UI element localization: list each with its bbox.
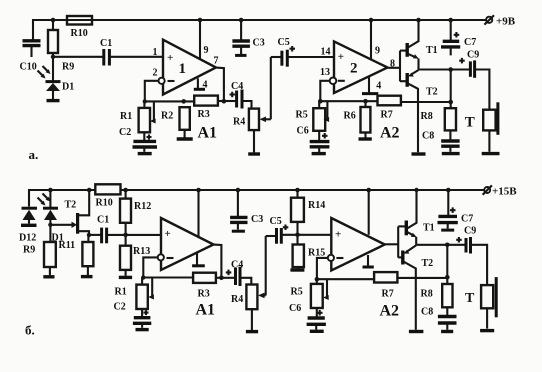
svg-text:C8: C8	[421, 307, 433, 318]
ground speaker	[482, 152, 500, 155]
svg-text:R8: R8	[421, 289, 433, 300]
power wire A1 bottom	[196, 188, 201, 237]
svg-text:+15В: +15В	[492, 186, 517, 198]
svg-text:C5: C5	[270, 216, 282, 227]
svg-text:C6: C6	[297, 126, 309, 137]
svg-text:9: 9	[375, 45, 380, 56]
op-amp A2 bottom	[331, 218, 385, 271]
svg-text:+: +	[335, 228, 341, 240]
capacitor C9	[459, 50, 489, 110]
svg-text:+: +	[167, 52, 173, 64]
JFET T2	[65, 188, 92, 235]
potentiometer R4	[233, 57, 271, 152]
pin 9 wire A2	[369, 18, 380, 60]
svg-text:R13: R13	[133, 246, 150, 257]
ground T2	[412, 152, 426, 155]
resistor R6	[344, 101, 371, 137]
wire top supply rail	[33, 20, 486, 40]
resistor R9 bottom	[23, 223, 56, 276]
svg-text:7: 7	[214, 56, 219, 67]
wire apex to bases bottom	[385, 226, 398, 257]
ground R15	[290, 268, 304, 271]
svg-text:C9: C9	[467, 50, 479, 61]
svg-text:R3: R3	[198, 109, 210, 120]
speaker T	[465, 102, 498, 152]
capacitor C6 bottom	[289, 303, 326, 330]
ground R4	[248, 152, 260, 155]
ground T2 bottom	[409, 330, 424, 333]
pin 7 label	[214, 56, 219, 67]
ground speaker bottom	[480, 329, 494, 332]
svg-text:R12: R12	[134, 201, 151, 212]
svg-text:4: 4	[376, 81, 381, 92]
pin 13 circle	[330, 78, 337, 85]
svg-text:T2: T2	[65, 200, 77, 211]
svg-text:A1: A1	[196, 302, 216, 319]
pin 1 label	[153, 47, 158, 58]
label a.	[29, 147, 39, 162]
svg-text:C8: C8	[422, 131, 434, 142]
svg-text:+: +	[338, 51, 344, 63]
resistor R3	[194, 96, 224, 120]
capacitor C6	[297, 126, 330, 153]
transistor T1	[400, 18, 438, 70]
svg-text:R5: R5	[291, 287, 303, 298]
pin circle A2 bottom	[328, 255, 334, 261]
wire A2 bottom feedback	[315, 258, 375, 282]
svg-text:T1: T1	[426, 45, 438, 56]
capacitor C4 bottom	[221, 260, 243, 286]
svg-text:R9: R9	[62, 62, 74, 73]
svg-text:C4: C4	[231, 260, 243, 271]
svg-text:C3: C3	[253, 38, 265, 49]
potentiometer R4 bottom	[231, 236, 266, 330]
potentiometer R1 bottom	[115, 278, 154, 310]
potentiometer R5	[296, 101, 330, 131]
svg-text:R2: R2	[161, 111, 173, 122]
ground C2	[138, 152, 152, 155]
op-amp A1	[163, 40, 216, 95]
resistor R14	[291, 188, 325, 237]
capacitor C2	[119, 127, 157, 152]
svg-text:T2: T2	[426, 87, 438, 98]
resistor R13	[120, 235, 150, 276]
svg-text:C2: C2	[119, 127, 131, 138]
ground C8	[442, 152, 460, 155]
svg-text:C9: C9	[464, 226, 476, 237]
wire A1 bottom output	[214, 245, 224, 281]
capacitor C1 bottom	[97, 215, 109, 244]
svg-text:C7: C7	[461, 214, 473, 225]
light arrows D1 bottom	[38, 194, 51, 206]
transistor T1 bottom	[398, 188, 434, 245]
pin circle A1 bottom	[158, 254, 164, 260]
svg-text:R4: R4	[233, 117, 245, 128]
label A2 bottom	[380, 303, 400, 320]
resistor R10	[67, 16, 92, 39]
pin 4 stub A2 bottom	[363, 255, 374, 267]
capacitor C2 bottom	[114, 302, 152, 328]
capacitor C1	[100, 38, 112, 66]
capacitor C4	[224, 81, 243, 109]
svg-text:R6: R6	[344, 111, 356, 122]
svg-text:4: 4	[203, 80, 208, 91]
node R9 top	[51, 18, 56, 23]
svg-text:R7: R7	[381, 110, 393, 121]
terminal +15V	[483, 185, 518, 197]
svg-text:R15: R15	[308, 247, 325, 258]
ground C6	[312, 152, 326, 155]
pin 9 wire	[198, 18, 209, 60]
op-amp A2	[334, 41, 388, 93]
svg-text:R5: R5	[296, 110, 308, 121]
svg-text:б.: б.	[25, 322, 35, 337]
resistor R7 bottom	[374, 272, 397, 299]
resistor R8 bottom	[421, 284, 453, 316]
capacitor C3	[232, 18, 264, 56]
ground R4 bottom	[246, 330, 258, 333]
svg-text:14: 14	[321, 47, 331, 58]
wire bottom supply rail	[29, 190, 484, 207]
resistor R7	[378, 96, 401, 121]
label A1 bottom	[196, 302, 216, 319]
pin 4 stub A1 bottom	[192, 253, 205, 266]
svg-text:R10: R10	[71, 28, 88, 39]
wire A2 feedback	[318, 81, 378, 104]
svg-text:D1: D1	[62, 82, 74, 93]
wire emitters node	[419, 67, 471, 72]
capacitor C5	[271, 37, 334, 67]
svg-text:T2: T2	[422, 258, 434, 269]
svg-text:C10: C10	[20, 62, 37, 73]
label A1	[198, 125, 218, 142]
svg-text:R9: R9	[23, 245, 35, 256]
label A2	[380, 125, 400, 142]
ground D12	[21, 224, 37, 227]
svg-text:R11: R11	[59, 240, 76, 251]
transistor T2 bottom	[398, 245, 433, 329]
wire emitters node bottom	[416, 243, 466, 248]
wire D1 to gate	[50, 222, 77, 228]
svg-text:T1: T1	[423, 222, 435, 233]
capacitor C10	[20, 41, 41, 73]
svg-text:C1: C1	[97, 215, 109, 226]
svg-text:2: 2	[350, 61, 358, 77]
resistor R11	[59, 233, 94, 275]
svg-text:C3: C3	[251, 214, 263, 225]
svg-text:C5: C5	[278, 37, 290, 48]
wire A1 feedback	[143, 81, 195, 104]
wire input node	[51, 55, 104, 59]
photodiode D1 bottom	[43, 188, 64, 244]
capacitor C7	[441, 18, 476, 56]
svg-text:A1: A1	[198, 125, 218, 142]
pin 4 stub A2	[362, 76, 381, 93]
svg-text:C4: C4	[231, 81, 243, 92]
wire C1 to A1 input	[107, 233, 161, 238]
resistor R8	[421, 108, 457, 140]
ground C6 bottom	[310, 330, 324, 333]
resistor R12	[120, 188, 151, 235]
capacitor C5 bottom	[266, 216, 332, 244]
svg-text:C6: C6	[289, 303, 301, 314]
wire output to R8	[401, 70, 453, 109]
ground R6	[359, 137, 372, 140]
svg-text:+9В: +9В	[496, 16, 516, 28]
terminal +9V	[484, 15, 515, 27]
photodiode D12	[19, 208, 37, 243]
power wire A2 bottom	[366, 188, 371, 235]
svg-text:+: +	[165, 228, 171, 240]
capacitor C3 bottom	[230, 188, 263, 232]
pin 4 stub	[194, 78, 208, 90]
svg-text:R8: R8	[421, 111, 433, 122]
svg-text:C2: C2	[114, 302, 126, 313]
svg-text:2: 2	[153, 68, 158, 79]
svg-text:R7: R7	[382, 288, 394, 299]
ground R13	[119, 276, 132, 279]
wire source node to C1	[89, 234, 101, 236]
light arrows D1	[38, 66, 51, 79]
svg-text:C7: C7	[464, 37, 476, 48]
svg-text:R3: R3	[198, 288, 210, 299]
ground R11	[81, 275, 93, 278]
wire output to R8 bottom	[445, 245, 450, 284]
svg-text:R1: R1	[115, 287, 127, 298]
resistor R2	[161, 107, 190, 138]
svg-text:a.: a.	[29, 147, 39, 162]
resistor R3 bottom	[193, 273, 221, 300]
resistor R9	[48, 20, 74, 73]
potentiometer R5 bottom	[291, 279, 329, 308]
ground R9 bottom	[43, 275, 54, 278]
ground R2	[177, 137, 193, 140]
ground C2 bottom	[136, 328, 149, 331]
pin 14 label	[321, 47, 331, 58]
label b.	[25, 322, 35, 337]
svg-text:T: T	[465, 114, 475, 130]
resistor R15	[293, 235, 326, 269]
capacitor C9 bottom	[456, 226, 487, 286]
wire C4 to R4	[242, 101, 252, 109]
svg-text:R4: R4	[231, 294, 243, 305]
svg-text:C1: C1	[100, 38, 112, 49]
svg-text:A2: A2	[380, 125, 400, 142]
svg-text:R14: R14	[308, 200, 325, 211]
svg-text:9: 9	[204, 45, 209, 56]
resistor R10 bottom	[95, 184, 120, 208]
pin 8 label	[390, 59, 395, 70]
wire pin8 to bases	[388, 51, 401, 82]
transistor T2	[400, 70, 438, 152]
resistor R1	[120, 101, 156, 132]
capacitor C7 bottom	[438, 188, 474, 230]
svg-text:A2: A2	[380, 303, 400, 320]
svg-text:R10: R10	[96, 198, 113, 209]
svg-text:1: 1	[179, 61, 187, 77]
pin 2 circle	[159, 78, 165, 84]
wire A1 output	[216, 68, 226, 104]
wire R7 to output junction	[397, 277, 447, 279]
ground D1	[47, 99, 60, 102]
speaker T bottom	[465, 277, 496, 329]
svg-text:13: 13	[320, 67, 330, 78]
wire C4 to R4 bottom	[240, 278, 251, 285]
op-amp A1 bottom	[161, 218, 214, 270]
photodiode D1	[46, 57, 75, 99]
wire C1 to A1	[109, 56, 163, 58]
ground C8 bottom	[441, 330, 453, 333]
svg-text:R1: R1	[120, 111, 132, 122]
capacitor C8	[422, 131, 460, 152]
svg-text:D12: D12	[19, 233, 36, 244]
capacitor C8 bottom	[421, 307, 457, 330]
svg-text:T: T	[465, 291, 475, 306]
pin 13 label	[320, 67, 330, 78]
wire A1 bottom feedback	[141, 257, 193, 279]
svg-text:1: 1	[153, 47, 158, 58]
pin 2 label	[153, 68, 158, 79]
